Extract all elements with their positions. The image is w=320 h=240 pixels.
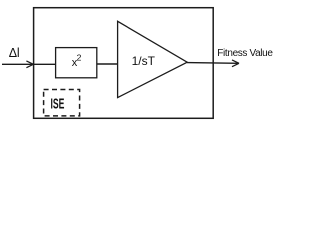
svg-text:Δl: Δl — [9, 46, 20, 60]
svg-text:Fitness Value: Fitness Value — [217, 48, 273, 59]
svg-text:ISE: ISE — [51, 95, 65, 112]
svg-text:1/sT: 1/sT — [132, 54, 156, 68]
svg-text:2: 2 — [77, 53, 82, 63]
